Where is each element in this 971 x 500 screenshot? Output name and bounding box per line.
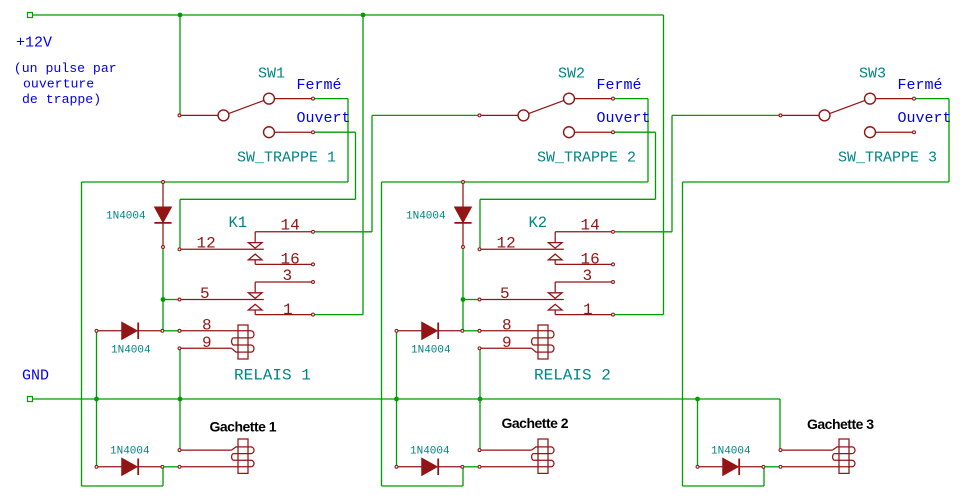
svg-text:SW1: SW1 bbox=[258, 66, 285, 83]
svg-text:K1: K1 bbox=[229, 214, 248, 232]
svg-text:14: 14 bbox=[281, 217, 300, 235]
svg-text:SW3: SW3 bbox=[859, 66, 886, 83]
svg-text:GND: GND bbox=[22, 367, 49, 384]
svg-text:12: 12 bbox=[197, 234, 216, 252]
svg-text:Fermé: Fermé bbox=[597, 77, 642, 94]
svg-text:ouverture: ouverture bbox=[23, 77, 94, 92]
svg-text:+12V: +12V bbox=[16, 35, 52, 52]
svg-text:SW_TRAPPE 1: SW_TRAPPE 1 bbox=[237, 149, 336, 166]
svg-text:1N4004: 1N4004 bbox=[111, 345, 151, 357]
svg-text:8: 8 bbox=[202, 317, 212, 335]
svg-text:12: 12 bbox=[497, 234, 516, 252]
svg-text:9: 9 bbox=[502, 334, 512, 352]
svg-text:SW_TRAPPE 2: SW_TRAPPE 2 bbox=[537, 149, 636, 166]
svg-text:1N4004: 1N4004 bbox=[411, 345, 451, 357]
svg-text:16: 16 bbox=[281, 251, 300, 269]
svg-text:Fermé: Fermé bbox=[898, 77, 943, 94]
svg-text:K2: K2 bbox=[529, 214, 548, 232]
svg-text:SW2: SW2 bbox=[558, 66, 585, 83]
svg-text:5: 5 bbox=[200, 285, 210, 303]
svg-text:Gachette 3: Gachette 3 bbox=[807, 416, 874, 432]
svg-text:Fermé: Fermé bbox=[297, 77, 342, 94]
svg-text:1N4004: 1N4004 bbox=[110, 446, 150, 458]
svg-text:(un pulse par: (un pulse par bbox=[14, 61, 117, 76]
svg-text:8: 8 bbox=[502, 317, 512, 335]
svg-text:16: 16 bbox=[581, 251, 600, 269]
svg-text:14: 14 bbox=[581, 217, 600, 235]
svg-text:Ouvert: Ouvert bbox=[898, 110, 952, 127]
svg-text:de trappe): de trappe) bbox=[22, 92, 101, 107]
svg-text:9: 9 bbox=[202, 334, 212, 352]
svg-text:1N4004: 1N4004 bbox=[410, 446, 450, 458]
svg-text:1: 1 bbox=[283, 301, 293, 319]
svg-text:Gachette 1: Gachette 1 bbox=[210, 419, 277, 435]
svg-text:Gachette 2: Gachette 2 bbox=[502, 415, 569, 431]
svg-text:5: 5 bbox=[500, 285, 510, 303]
svg-text:3: 3 bbox=[283, 267, 293, 285]
svg-text:1N4004: 1N4004 bbox=[711, 446, 751, 458]
svg-text:Ouvert: Ouvert bbox=[297, 110, 351, 127]
svg-text:3: 3 bbox=[583, 267, 593, 285]
svg-text:Ouvert: Ouvert bbox=[597, 110, 651, 127]
svg-text:RELAIS 2: RELAIS 2 bbox=[534, 366, 611, 384]
svg-text:1: 1 bbox=[583, 301, 593, 319]
svg-text:1N4004: 1N4004 bbox=[406, 211, 446, 223]
svg-text:RELAIS 1: RELAIS 1 bbox=[234, 366, 311, 384]
svg-text:1N4004: 1N4004 bbox=[106, 211, 146, 223]
svg-text:SW_TRAPPE 3: SW_TRAPPE 3 bbox=[838, 149, 937, 166]
